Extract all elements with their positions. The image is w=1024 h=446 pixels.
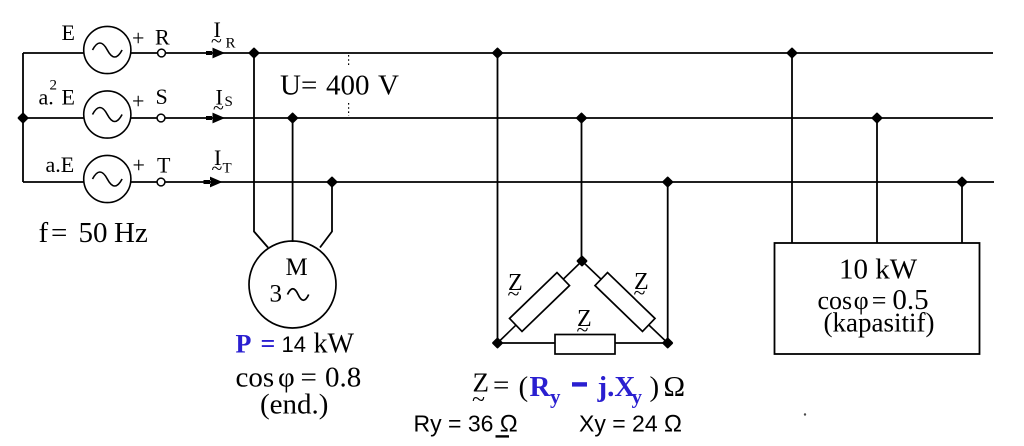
wire motor drop S [292, 118, 294, 242]
impedance Z3 (bottom) [555, 335, 615, 355]
junction delta S [577, 114, 585, 122]
arrow IT [204, 177, 223, 188]
svg-text:M: M [286, 254, 308, 281]
terminal R [158, 49, 166, 57]
speck artifact [804, 413, 806, 415]
wire load drop T [961, 182, 963, 243]
wire delta drop R [497, 53, 499, 343]
node delta bottom-right [664, 339, 672, 347]
svg-text:(end.): (end.) [260, 389, 328, 421]
svg-text:14: 14 [282, 332, 306, 357]
svg-text:R: R [155, 25, 170, 50]
wire R bus [131, 52, 158, 54]
load box 10kW [775, 243, 980, 354]
svg-text:~: ~ [212, 158, 223, 180]
svg-text:P: P [236, 330, 252, 359]
source a2E (AC source U2) [84, 91, 131, 138]
svg-text:V: V [378, 70, 399, 102]
terminal S [157, 114, 165, 122]
svg-text:~: ~ [634, 280, 646, 305]
svg-text:E: E [62, 20, 75, 45]
svg-text:0.8: 0.8 [325, 362, 361, 394]
wire delta side right [582, 261, 668, 343]
svg-text:S: S [225, 94, 233, 110]
dotted measure line U [348, 55, 350, 116]
junction rail S [19, 114, 27, 122]
svg-text:Ry = 36 Ω: Ry = 36 Ω [414, 411, 518, 438]
svg-text:=: = [493, 370, 509, 402]
svg-text:~: ~ [472, 387, 485, 413]
junction motor T [328, 178, 336, 186]
svg-text:Hz: Hz [114, 217, 148, 249]
svg-text:50: 50 [79, 217, 108, 249]
svg-text:a.E: a.E [46, 152, 75, 177]
svg-text:3: 3 [270, 281, 283, 308]
svg-text:y: y [550, 385, 561, 409]
svg-text:400: 400 [326, 70, 370, 102]
svg-text:f: f [39, 217, 49, 249]
wire motor drop R [254, 53, 268, 248]
junction motor R [250, 49, 258, 57]
wire T bus [131, 181, 158, 183]
wire rail to source a2E [23, 117, 84, 119]
svg-text:T: T [223, 161, 232, 177]
svg-text:=: = [51, 217, 67, 249]
wire rail to source E [23, 52, 84, 54]
node delta apex [578, 257, 586, 265]
svg-text:E: E [62, 85, 75, 110]
junction delta T [664, 178, 672, 186]
svg-text:~: ~ [508, 281, 520, 306]
wire load drop R [791, 53, 793, 243]
junction delta R [493, 49, 501, 57]
wire delta drop T [667, 182, 669, 343]
motor M1 circle [249, 241, 336, 328]
svg-text:2: 2 [50, 78, 58, 94]
node delta bottom-left [493, 339, 501, 347]
wire delta side left [498, 261, 583, 343]
svg-text:R: R [530, 371, 552, 403]
wire left rail [22, 53, 24, 182]
svg-text:+: + [132, 89, 144, 114]
wire rail to source aE [23, 181, 84, 183]
arrow IS [206, 113, 225, 124]
junction motor S [288, 114, 296, 122]
impedance Z2 (right) [595, 273, 655, 332]
svg-text:10 kW: 10 kW [839, 254, 918, 286]
junction load T [958, 178, 966, 186]
wire S bus [131, 117, 158, 119]
svg-text:~: ~ [577, 317, 589, 342]
svg-text:y: y [632, 385, 643, 409]
svg-text:~: ~ [213, 98, 224, 120]
arrow IR [206, 48, 225, 59]
svg-text:(: ( [519, 371, 529, 403]
svg-text:U: U [280, 70, 301, 102]
junction load R [788, 49, 796, 57]
svg-text:j.X: j.X [597, 371, 636, 403]
wire delta bottom [498, 342, 668, 344]
svg-text:): ) [650, 371, 660, 403]
source E (AC source U1) [84, 26, 131, 73]
svg-text:=: = [301, 70, 317, 102]
svg-text:~: ~ [211, 31, 222, 53]
svg-text:(kapasitif): (kapasitif) [824, 308, 935, 338]
svg-text:+: + [133, 152, 145, 177]
junction load S [873, 114, 881, 122]
source aE (AC source U3) [84, 155, 131, 202]
wire delta drop S [581, 118, 583, 261]
svg-text:Xy = 24 Ω: Xy = 24 Ω [579, 411, 682, 438]
wire motor drop T [320, 182, 332, 248]
svg-text:+: + [132, 26, 144, 51]
svg-text:=: = [261, 329, 276, 358]
svg-text:R: R [226, 36, 236, 52]
impedance Z1 (left) [510, 273, 570, 332]
svg-text:Ω: Ω [664, 371, 686, 403]
wire load drop S [876, 118, 878, 243]
svg-text:T: T [157, 153, 171, 178]
terminal T [157, 178, 165, 186]
svg-text:S: S [156, 84, 168, 109]
svg-text:kW: kW [314, 329, 355, 360]
